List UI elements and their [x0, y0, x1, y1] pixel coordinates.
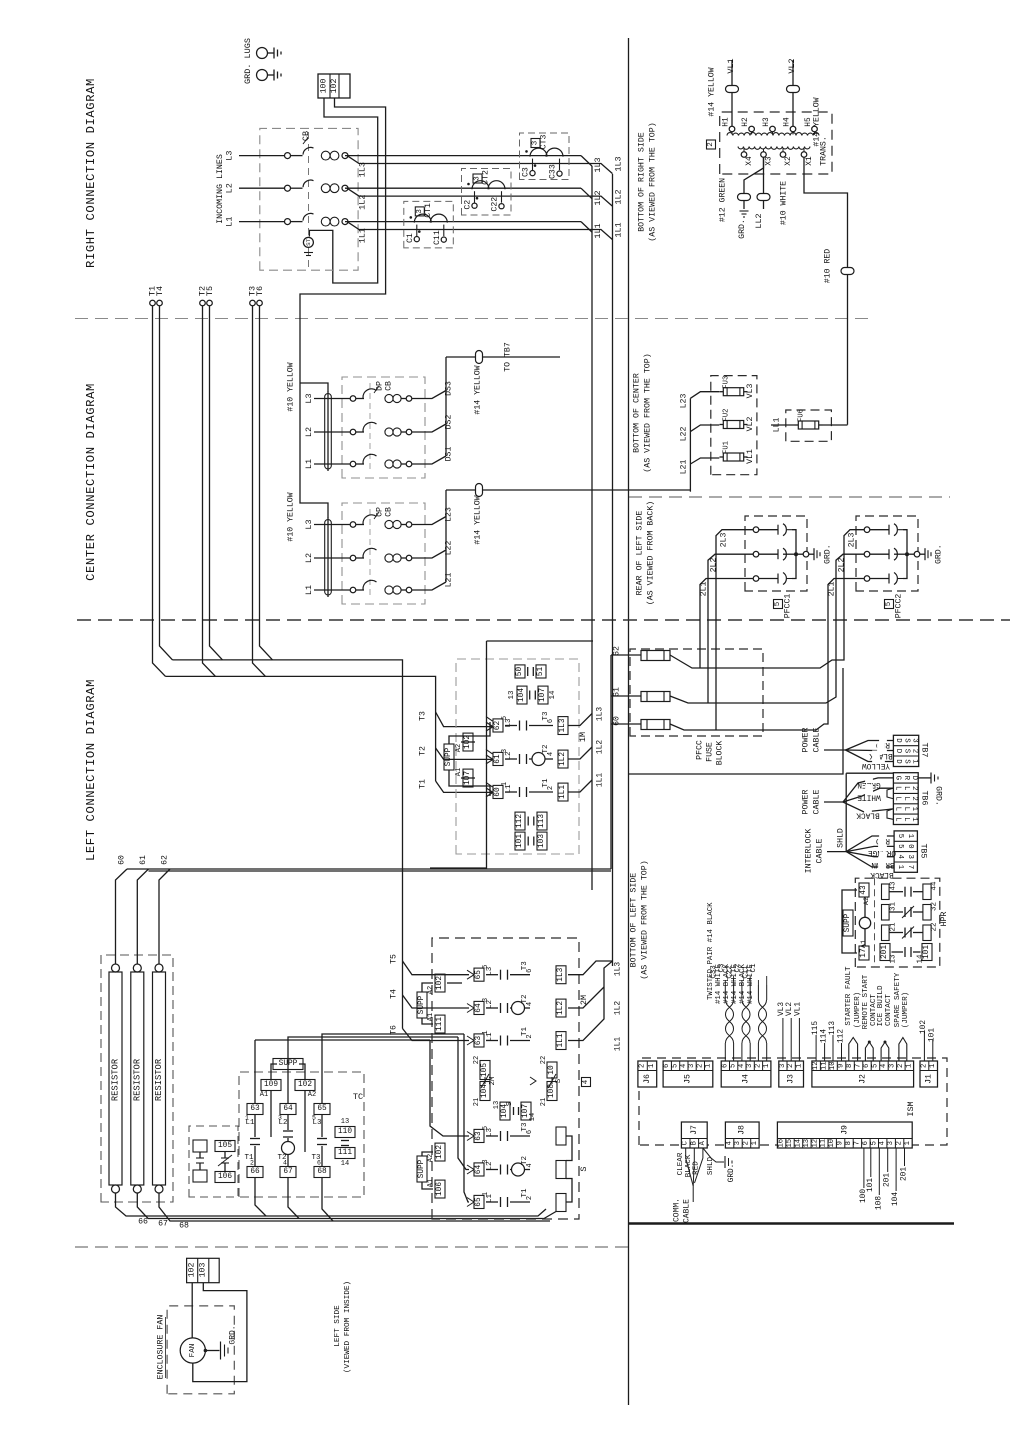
- svg-text:5: 5: [870, 1141, 878, 1145]
- wire 1L3 (lower run): [347, 156, 613, 174]
- svg-text:1L2: 1L2: [614, 189, 624, 204]
- boxed 5 note (PFCC2): [885, 600, 894, 609]
- svg-text:112: 112: [838, 1029, 846, 1043]
- svg-text:C33: C33: [710, 965, 718, 978]
- svg-text:9: 9: [837, 1141, 845, 1145]
- 2M coil terminal A2/102: [435, 974, 445, 992]
- svg-text:L: L: [894, 807, 902, 811]
- svg-text:62: 62: [161, 855, 170, 865]
- transformer TRANS dashed enclosure: [720, 112, 832, 174]
- svg-text:10: 10: [548, 1065, 556, 1075]
- svg-text:1: 1: [751, 1141, 759, 1145]
- svg-text:22: 22: [931, 922, 939, 931]
- svg-text:1: 1: [911, 759, 919, 764]
- svg-text:2L3: 2L3: [720, 533, 729, 548]
- svg-text:101: 101: [867, 1178, 875, 1192]
- coil SUPP (TC): [273, 1059, 303, 1070]
- svg-text:105: 105: [218, 1142, 232, 1150]
- svg-text:3: 3: [888, 1064, 896, 1068]
- svg-text:5: 5: [730, 1064, 738, 1068]
- svg-text:14: 14: [549, 690, 557, 700]
- svg-text:A1: A1: [427, 1013, 435, 1021]
- ISM connector J1: [920, 1061, 938, 1087]
- terminal block TB7: [893, 735, 918, 766]
- svg-text:5: 5: [672, 1064, 680, 1068]
- resistor R1: [112, 964, 120, 972]
- svg-text:#10 YELLOW: #10 YELLOW: [287, 492, 296, 541]
- svg-text:68: 68: [179, 1222, 189, 1231]
- svg-text:61: 61: [139, 855, 148, 865]
- svg-text:4: 4: [680, 1064, 688, 1068]
- disconnect CP CB dashed enclosure: [342, 503, 425, 604]
- svg-text:CT2: CT2: [482, 170, 491, 185]
- svg-text:C11: C11: [433, 230, 442, 245]
- wire L2x bus to fuses: [445, 490, 447, 582]
- wire 1L2 (upper run to CT): [345, 187, 581, 189]
- svg-text:VL1: VL1: [794, 1002, 802, 1016]
- TB6 jog links: [887, 788, 893, 798]
- wire LL2 #10 WHITE: [763, 157, 765, 209]
- svg-text:VL3: VL3: [746, 384, 755, 399]
- arrows into 2M poles: [467, 970, 474, 979]
- boxed 105: [215, 1141, 235, 1152]
- svg-text:RED: RED: [693, 1161, 701, 1175]
- svg-text:GRD. LUGS: GRD. LUGS: [243, 38, 253, 84]
- svg-text:COMM.: COMM.: [673, 1198, 682, 1222]
- fuse FU2: [723, 421, 743, 429]
- svg-text:A1: A1: [427, 1179, 435, 1187]
- svg-text:1L2: 1L2: [593, 190, 603, 205]
- svg-text:L2: L2: [304, 553, 314, 563]
- wires resistor bottoms 66/67/68: [116, 1193, 547, 1216]
- svg-text:CABLE: CABLE: [816, 839, 825, 864]
- S coil terminal A2/102: [435, 1143, 445, 1161]
- ground GRD (transformer): [740, 210, 749, 212]
- svg-text:51: 51: [537, 667, 545, 677]
- svg-text:L3: L3: [312, 1119, 322, 1127]
- svg-text:L2: L2: [278, 1119, 287, 1127]
- HPR contact 13-14 with 201/101: [880, 944, 890, 961]
- PFCC fuse 62: [611, 654, 641, 656]
- svg-text:1: 1: [705, 1064, 713, 1068]
- svg-text:CT3: CT3: [540, 135, 549, 150]
- transformer secondary winding X4-X1: [738, 147, 810, 150]
- section separator dashed (right/center): [75, 318, 871, 320]
- ground lug 1: [257, 48, 268, 59]
- svg-text:PFCC: PFCC: [696, 740, 705, 760]
- svg-text:WHITE: WHITE: [857, 793, 881, 801]
- svg-text:65: 65: [317, 1105, 327, 1113]
- svg-text:POWER: POWER: [802, 790, 811, 815]
- svg-text:A2: A2: [427, 986, 435, 994]
- svg-text:4: 4: [526, 1002, 534, 1006]
- SUPP wiring: [271, 1064, 277, 1080]
- svg-text:22: 22: [473, 1056, 481, 1064]
- svg-text:6: 6: [317, 1160, 321, 1167]
- svg-text:63: 63: [475, 1036, 483, 1046]
- svg-text:68: 68: [317, 1168, 327, 1176]
- svg-text:L: L: [902, 796, 910, 800]
- TB6 ground wire: [918, 777, 931, 779]
- svg-text:1L3: 1L3: [596, 707, 605, 722]
- svg-text:66: 66: [250, 1168, 260, 1176]
- svg-text:C11: C11: [742, 965, 750, 979]
- svg-text:(JUMPER): (JUMPER): [854, 992, 862, 1028]
- svg-text:A2: A2: [455, 744, 463, 752]
- svg-text:3: 3: [779, 1064, 787, 1068]
- TC contact column L2/64/67: [280, 1104, 296, 1115]
- svg-text:105: 105: [481, 1063, 489, 1077]
- svg-text:63: 63: [250, 1105, 260, 1113]
- svg-text:#10 WHITE: #10 WHITE: [780, 181, 789, 225]
- svg-text:TB6: TB6: [920, 791, 929, 806]
- svg-text:22: 22: [540, 1056, 548, 1064]
- aux interlock 2M 21-22: [480, 1061, 490, 1080]
- svg-text:67: 67: [283, 1168, 293, 1176]
- wires 2L1 2L2 2L3 (PFCC1): [716, 530, 753, 620]
- svg-text:S: S: [506, 1101, 514, 1106]
- svg-text:50: 50: [516, 667, 524, 677]
- TC feed wires from top: [255, 1039, 430, 1041]
- ISM connector J2: [812, 1061, 914, 1087]
- wire VL2 #14 YELLOW: [792, 60, 794, 126]
- wire T1 drop: [153, 306, 166, 676]
- wire branch to DP breaker feed: [300, 383, 328, 392]
- svg-text:L: L: [902, 786, 910, 790]
- jumper STARTER FAULT: [849, 1038, 858, 1062]
- wire T4 drop: [160, 306, 173, 660]
- PFCC fuse 60: [611, 723, 641, 725]
- svg-text:VL1: VL1: [726, 58, 736, 73]
- svg-text:101: 101: [516, 834, 524, 848]
- svg-text:L3: L3: [304, 393, 314, 403]
- S pole L3 63: [474, 1129, 484, 1142]
- 2M pole L1 63-1L1: [474, 1034, 484, 1047]
- svg-text:10: 10: [829, 1061, 837, 1070]
- resistor R2: [133, 964, 141, 972]
- svg-text:1: 1: [795, 1064, 803, 1068]
- svg-text:110: 110: [338, 1128, 352, 1136]
- svg-text:108: 108: [875, 1196, 883, 1210]
- wire DS1: [412, 456, 446, 464]
- svg-text:T5: T5: [390, 954, 399, 964]
- svg-text:1L2: 1L2: [358, 195, 368, 210]
- svg-text:T1: T1: [419, 779, 428, 789]
- svg-text:201: 201: [881, 945, 889, 959]
- svg-text:B: B: [690, 1140, 698, 1145]
- svg-text:BLOCK: BLOCK: [716, 741, 725, 766]
- svg-text:T6: T6: [255, 286, 265, 296]
- svg-text:S: S: [555, 1078, 563, 1083]
- svg-text:RESISTOR: RESISTOR: [132, 1058, 142, 1101]
- svg-text:L23: L23: [680, 394, 689, 409]
- svg-text:104: 104: [518, 688, 526, 702]
- PFCC fuse 61: [611, 695, 641, 697]
- svg-text:REAR OF LEFT SIDE: REAR OF LEFT SIDE: [636, 511, 645, 596]
- svg-text:H1: H1: [723, 117, 731, 127]
- svg-text:1L1: 1L1: [557, 1033, 565, 1047]
- wire terminal 102 to control feed: [300, 98, 386, 518]
- arrows into 1M poles: [486, 722, 493, 731]
- svg-text:60: 60: [118, 855, 127, 865]
- comm cable fan at J7: [686, 1148, 694, 1196]
- svg-text:12: 12: [812, 1061, 820, 1070]
- svg-text:FU2: FU2: [723, 409, 731, 422]
- svg-text:A: A: [699, 1140, 707, 1145]
- svg-text:2L2: 2L2: [838, 558, 847, 573]
- PFCC2 capacitor phase 2: [864, 551, 870, 557]
- HPR contact 21-22 (NC): [882, 925, 890, 941]
- svg-text:L: L: [894, 786, 902, 790]
- svg-text:C22: C22: [491, 197, 500, 212]
- svg-text:6: 6: [663, 1064, 671, 1068]
- terminal block 102/103 (fan): [187, 1258, 220, 1282]
- svg-text:#10 YELLOW: #10 YELLOW: [287, 362, 296, 411]
- labels RED ORANGE BROWN BLACK (TB5): [879, 832, 887, 848]
- svg-text:C22: C22: [726, 965, 734, 978]
- wires below J9: [863, 1148, 865, 1188]
- fan supply wire: [191, 1283, 193, 1338]
- svg-text:J6: J6: [643, 1074, 652, 1084]
- svg-text:LEFT SIDE: LEFT SIDE: [334, 1305, 342, 1347]
- svg-text:5: 5: [896, 834, 904, 838]
- jumper SPARE SAFETY: [899, 1038, 907, 1062]
- svg-text:65: 65: [475, 1197, 483, 1207]
- svg-text:C: C: [682, 1140, 690, 1145]
- svg-text:2: 2: [639, 1064, 647, 1068]
- svg-text:2M: 2M: [489, 1076, 497, 1086]
- PFCC2 ground wire: [907, 553, 914, 555]
- wire T2 drop: [203, 306, 216, 676]
- svg-text:S: S: [902, 749, 910, 754]
- svg-text:CLEAR: CLEAR: [677, 1152, 685, 1175]
- svg-text:64: 64: [283, 1105, 293, 1113]
- aux interlock S 21-22: [547, 1062, 557, 1078]
- svg-text:(JUMPER): (JUMPER): [902, 992, 910, 1028]
- svg-text:(AS VIEWED FROM BACK): (AS VIEWED FROM BACK): [646, 501, 656, 606]
- svg-text:C1: C1: [406, 233, 415, 243]
- svg-text:2: 2: [910, 786, 918, 790]
- svg-text:2: 2: [897, 1064, 905, 1068]
- wire X3 to ground #12 GREEN: [744, 157, 764, 209]
- HPR terminal 17: [859, 946, 869, 960]
- svg-text:CB: CB: [385, 507, 394, 517]
- svg-text:8: 8: [846, 1064, 854, 1068]
- HPR terminal 43: [859, 883, 869, 897]
- wire T6 into 2M: [403, 1029, 470, 1041]
- svg-text:6: 6: [862, 1141, 870, 1145]
- svg-text:3: 3: [906, 854, 914, 858]
- splice #14 YELLOW to TB7: [476, 351, 483, 364]
- feed sleeve capsule: [325, 520, 332, 596]
- svg-text:TO TB7: TO TB7: [504, 342, 513, 372]
- svg-text:X3: X3: [766, 156, 774, 166]
- fuse block FU1-FU3 dashed enclosure: [711, 376, 757, 475]
- svg-text:(AS VIEWED FROM THE TOP): (AS VIEWED FROM THE TOP): [648, 122, 658, 242]
- svg-text:GRD.: GRD.: [738, 219, 747, 239]
- svg-text:H2: H2: [742, 117, 750, 127]
- svg-text:J7: J7: [690, 1125, 699, 1135]
- svg-text:J3: J3: [787, 1074, 796, 1084]
- terminal block TB6: [893, 773, 918, 825]
- wire T5 into 2M: [403, 961, 470, 975]
- current transformer CT3: [520, 133, 570, 180]
- svg-text:C2: C2: [464, 200, 473, 210]
- enclosure fan dashed box: [167, 1306, 234, 1394]
- svg-text:101: 101: [929, 1028, 937, 1042]
- svg-text:100: 100: [320, 79, 329, 94]
- svg-text:SPARE SAFETY: SPARE SAFETY: [894, 972, 902, 1027]
- svg-text:LEFT CONNECTION DIAGRAM: LEFT CONNECTION DIAGRAM: [84, 679, 98, 861]
- svg-text:2L1: 2L1: [828, 582, 837, 597]
- svg-text:114: 114: [821, 1029, 829, 1043]
- svg-text:YELLOW: YELLOW: [862, 761, 890, 769]
- svg-text:J1: J1: [924, 1074, 933, 1084]
- svg-text:63: 63: [475, 1131, 483, 1141]
- labels GREEN WHITE BLACK (TB6): [865, 772, 873, 797]
- svg-text:#12 GREEN: #12 GREEN: [719, 178, 728, 222]
- svg-text:TWISTED PAIR #14 BLACK: TWISTED PAIR #14 BLACK: [707, 902, 715, 1000]
- svg-text:BOTTOM OF CENTER: BOTTOM OF CENTER: [633, 373, 642, 453]
- svg-text:STARTER FAULT: STARTER FAULT: [845, 966, 853, 1026]
- svg-text:3: 3: [911, 738, 919, 742]
- transformer primary winding H1-H5: [729, 126, 735, 132]
- svg-text:5: 5: [774, 601, 782, 606]
- svg-text:1L1: 1L1: [614, 222, 624, 237]
- S pole L1 65: [474, 1195, 484, 1208]
- svg-text:103: 103: [538, 834, 546, 848]
- fuse FU3: [723, 388, 743, 396]
- svg-text:10: 10: [828, 1139, 836, 1148]
- wire 1L3 (upper run to CT): [345, 155, 581, 157]
- svg-text:CONTACT: CONTACT: [885, 994, 893, 1026]
- 1M pole L2: terminals 61 / 1L2: [493, 752, 503, 765]
- capacitor symbol: [196, 1157, 204, 1159]
- svg-text:14: 14: [917, 954, 925, 964]
- wire T5 drop: [210, 306, 223, 660]
- svg-text:43: 43: [860, 885, 868, 895]
- svg-text:1L3: 1L3: [358, 162, 368, 177]
- svg-text:1M: 1M: [578, 732, 588, 742]
- PFCC1 capacitor phase 3: [753, 527, 759, 533]
- wires VL3 VL2 VL1 to J3: [782, 1018, 784, 1061]
- svg-text:L22: L22: [680, 427, 689, 442]
- feed sleeve capsule: [325, 394, 332, 470]
- boxed 4 note: [582, 1078, 591, 1087]
- svg-text:3: 3: [746, 1064, 754, 1068]
- bus 1L to 1M contactor (triple wire): [591, 166, 593, 890]
- svg-text:VL2: VL2: [787, 58, 797, 73]
- svg-text:11: 11: [821, 1061, 829, 1070]
- svg-text:11: 11: [820, 1139, 828, 1148]
- svg-text:4: 4: [879, 1141, 887, 1145]
- svg-text:1: 1: [763, 1064, 771, 1068]
- svg-text:1: 1: [904, 1141, 912, 1145]
- svg-text:RESISTOR: RESISTOR: [111, 1058, 121, 1101]
- bundle T1/T2/T3 to 1M: [166, 676, 436, 781]
- svg-text:L1: L1: [304, 459, 314, 469]
- svg-text:SHLD: SHLD: [707, 1156, 715, 1175]
- 1M coil terminal A1 / 107: [463, 769, 473, 787]
- svg-text:13: 13: [341, 1118, 349, 1126]
- circuit breaker pole contact: [285, 219, 291, 225]
- fan ground wire: [204, 1349, 208, 1353]
- circuit breaker CB dashed enclosure: [260, 128, 358, 270]
- wire T2 into 1M: [436, 748, 492, 759]
- svg-text:16: 16: [778, 1139, 786, 1148]
- svg-text:A2: A2: [308, 1091, 316, 1099]
- wire T4 into 2M: [403, 995, 470, 1008]
- svg-text:103: 103: [199, 1263, 208, 1278]
- svg-text:CENTER CONNECTION DIAGRAM: CENTER CONNECTION DIAGRAM: [84, 383, 98, 581]
- svg-text:60: 60: [494, 787, 502, 797]
- svg-text:POWER: POWER: [802, 728, 811, 753]
- feed bus: [327, 518, 329, 598]
- svg-text:G: G: [894, 776, 902, 780]
- svg-text:2: 2: [755, 1064, 763, 1068]
- svg-text:CABLE: CABLE: [683, 1199, 692, 1223]
- svg-text:21: 21: [473, 1098, 481, 1106]
- comm shield to ground: [703, 1148, 724, 1162]
- 2M pole L2 64-1L2: [474, 1001, 484, 1014]
- svg-text:HPR: HPR: [940, 912, 949, 927]
- boxed 2 note: [707, 140, 716, 149]
- disconnect DP CB dashed enclosure: [342, 377, 425, 478]
- wire to TB feed: [629, 668, 844, 774]
- svg-text:BOTTOM OF RIGHT SIDE: BOTTOM OF RIGHT SIDE: [638, 132, 647, 232]
- svg-text:LL2: LL2: [754, 213, 764, 228]
- svg-text:C1: C1: [750, 963, 758, 972]
- svg-text:1L3: 1L3: [593, 157, 603, 172]
- wire terminal 100 to breaker L1: [309, 98, 377, 283]
- capacitor bank PFCC1 dashed enclosure: [745, 516, 807, 591]
- svg-text:VL2: VL2: [746, 417, 755, 432]
- svg-text:A1: A1: [260, 1091, 268, 1099]
- svg-text:14: 14: [529, 1113, 537, 1121]
- PFCC1 phase tie wire: [787, 529, 792, 531]
- ISM dashed enclosure: [639, 1058, 947, 1145]
- wire T6 drop: [260, 306, 273, 660]
- svg-text:GRD.: GRD.: [824, 544, 833, 564]
- svg-text:REMOTE START: REMOTE START: [862, 974, 870, 1029]
- svg-text:9: 9: [838, 1064, 846, 1068]
- resistor bank dashed enclosure: [101, 955, 173, 1202]
- 1M internal frame wire: [430, 641, 487, 868]
- contactor 2M/S dashed enclosure: [432, 938, 579, 1219]
- timer TC dashed enclosure: [239, 1072, 364, 1197]
- svg-text:S: S: [579, 1166, 589, 1171]
- svg-text:1L2: 1L2: [614, 1001, 623, 1016]
- svg-text:FU1: FU1: [723, 441, 731, 454]
- HPR coil SUPP: [843, 910, 853, 936]
- fuse FU1: [723, 453, 743, 461]
- section separator dashed (center/left, rear of left side): [77, 619, 1010, 621]
- ISM connector J6: [638, 1061, 657, 1087]
- ISM connector J4: [721, 1061, 771, 1087]
- svg-text:#10 RED: #10 RED: [824, 249, 833, 283]
- svg-text:L2: L2: [225, 183, 235, 193]
- svg-text:102: 102: [330, 79, 339, 94]
- svg-text:1: 1: [910, 807, 918, 812]
- svg-text:201: 201: [884, 1173, 892, 1187]
- svg-text:J9: J9: [840, 1125, 849, 1135]
- svg-text:115: 115: [812, 1021, 820, 1035]
- svg-text:4: 4: [526, 1163, 534, 1167]
- svg-text:65: 65: [475, 970, 483, 980]
- circuit breaker pole contact: [285, 153, 291, 159]
- PFCC1 ground wire: [796, 553, 803, 555]
- svg-text:X1: X1: [806, 156, 814, 166]
